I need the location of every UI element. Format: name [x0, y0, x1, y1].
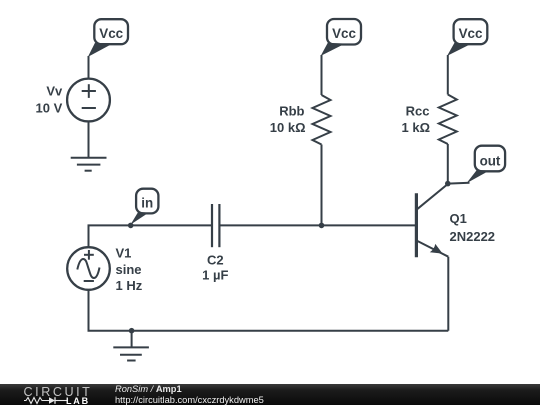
svg-text:C2: C2 [207, 253, 224, 268]
wire C2 right plate to Q1 base [220, 224, 415, 226]
svg-text:Vcc: Vcc [332, 26, 356, 41]
svg-text:Q1: Q1 [450, 211, 467, 226]
svg-text:2N2222: 2N2222 [450, 229, 496, 244]
wire junction to ground [131, 331, 133, 348]
junction node in [128, 223, 134, 229]
net label out [467, 146, 506, 184]
svg-text:10 V: 10 V [36, 100, 63, 115]
label Vv 10 V [36, 83, 64, 115]
junction bottom rail / ground [129, 328, 135, 334]
svg-text:out: out [480, 153, 501, 168]
net label in [131, 189, 159, 225]
svg-text:Rbb: Rbb [279, 104, 304, 119]
wire Vcc label to Rcc top [447, 55, 449, 95]
svg-text:V1: V1 [116, 246, 132, 261]
wire Vcc label to Rbb top [321, 55, 323, 95]
svg-text:Vcc: Vcc [459, 26, 483, 41]
svg-text:in: in [141, 195, 153, 210]
voltage source Vv [67, 79, 110, 122]
junction node out (collector) [445, 181, 451, 187]
wire V1 positive to C2 left plate (in node) [89, 225, 212, 247]
transistor Q1 emitter lead with arrow [417, 241, 449, 257]
capacitor C2 [212, 204, 219, 247]
svg-text:sine: sine [116, 262, 142, 277]
wire Vv negative terminal to ground [88, 121, 90, 157]
svg-text:1 µF: 1 µF [202, 267, 228, 282]
footer url [115, 395, 264, 405]
wire emitter to bottom rail [447, 257, 449, 331]
wire Vcc label to Vv positive terminal [88, 56, 90, 79]
wire bottom rail (emitter to V1) [89, 330, 449, 331]
svg-text:10 kΩ: 10 kΩ [270, 120, 306, 135]
svg-text:Rcc: Rcc [406, 104, 430, 119]
wire Rbb bottom to base node [321, 145, 323, 226]
svg-text:1 kΩ: 1 kΩ [402, 120, 431, 135]
net label Vcc (above Rbb) [321, 19, 361, 56]
ground (under Vv) [71, 158, 107, 171]
wire Rcc bottom to collector node [447, 144, 449, 184]
footer title RonSim / Amp1 [115, 384, 182, 394]
wire collector node to out label [448, 182, 470, 185]
net label Vcc (above Rcc) [447, 19, 487, 56]
resistor Rbb [313, 95, 331, 145]
net label Vcc (top-left, on Vv positive terminal) [88, 19, 128, 57]
label Rbb 10 kOhm [270, 104, 306, 135]
label V1 sine 1 Hz [116, 246, 143, 294]
ground (bottom rail) [113, 347, 149, 360]
label Rcc 1 kOhm [402, 104, 431, 135]
CircuitLab logo circuit glyph (resistor + diode) [24, 396, 68, 405]
junction Rbb / base wire [319, 223, 325, 229]
label Q1 2N2222 [450, 211, 496, 244]
svg-text:1 Hz: 1 Hz [116, 278, 143, 293]
resistor Rcc [439, 95, 457, 145]
footer bar [0, 384, 540, 405]
wire V1 negative to bottom rail [88, 290, 90, 331]
CircuitLab logo LAB text [66, 396, 90, 406]
voltage source V1 (sine) [67, 247, 110, 290]
svg-text:Vv: Vv [46, 83, 63, 98]
label C2 1 uF [202, 253, 228, 283]
svg-text:Vcc: Vcc [99, 26, 123, 41]
transistor Q1 base bar [415, 193, 418, 257]
CircuitLab logo wordmark [24, 385, 93, 399]
transistor Q1 collector lead [417, 184, 448, 209]
